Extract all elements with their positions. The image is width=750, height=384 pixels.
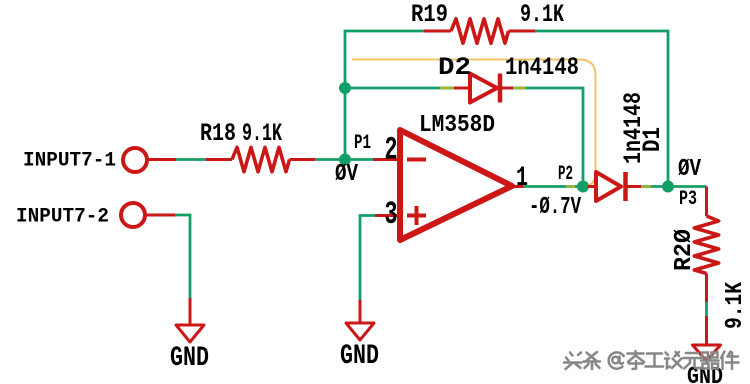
resistor R20 (vertical) xyxy=(694,216,718,274)
svg-text:GND: GND xyxy=(170,343,209,374)
wire orange highlight net xyxy=(352,60,596,187)
工 xyxy=(646,354,664,367)
op-amp plus input mark xyxy=(407,214,426,218)
terminal INPUT7-1 xyxy=(123,148,147,172)
svg-text:INPUT7-2: INPUT7-2 xyxy=(16,206,109,229)
wire INPUT7-2 to GND xyxy=(146,214,175,217)
ground GND left xyxy=(176,325,204,342)
wire P3 to R20 xyxy=(674,185,707,188)
谈 xyxy=(665,352,682,368)
resistor R18 xyxy=(232,147,290,171)
pin mark D2 anode xyxy=(440,87,454,89)
@ xyxy=(609,352,624,368)
diode D1 xyxy=(588,172,641,201)
svg-text:D1: D1 xyxy=(638,127,667,152)
wire op-amp output to node P2 xyxy=(512,185,523,188)
svg-text:P3: P3 xyxy=(679,188,697,211)
svg-text:3: 3 xyxy=(385,196,398,233)
svg-text:-Ø.7V: -Ø.7V xyxy=(529,194,581,221)
件 xyxy=(721,352,739,370)
svg-text:LM358D: LM358D xyxy=(419,112,495,139)
op-amp U1 LM358D xyxy=(400,130,512,240)
svg-text:2: 2 xyxy=(385,132,398,169)
wire D2 cathode to node P2 xyxy=(513,88,583,187)
svg-text:R2Ø: R2Ø xyxy=(671,229,698,271)
wire R20 to GND xyxy=(302,273,707,275)
wire R18 right xyxy=(290,158,316,161)
svg-text:1n4148: 1n4148 xyxy=(505,53,579,82)
ground GND middle xyxy=(346,323,374,340)
wire D1 cathode to node P3 xyxy=(641,185,662,188)
wire P1 to op-amp pin 2 xyxy=(351,158,373,161)
pin mark D1 cathode xyxy=(641,186,651,188)
wire R19 left red lead xyxy=(424,30,451,33)
wire D2 anode branch xyxy=(345,87,454,90)
wire input row INPUT7-1 xyxy=(147,158,176,161)
node P1 junction dot xyxy=(339,154,351,166)
器 xyxy=(701,353,719,369)
node P3 junction dot xyxy=(662,181,674,193)
条 xyxy=(584,352,601,369)
svg-text:P1: P1 xyxy=(354,132,371,155)
pin mark op-amp output xyxy=(566,186,575,188)
resistor R19 xyxy=(451,19,509,43)
node P2 junction dot xyxy=(577,181,589,193)
svg-text:9.1K: 9.1K xyxy=(242,119,282,148)
wire R19 to right rail and down to node P3 xyxy=(535,31,668,181)
svg-text:R19: R19 xyxy=(411,0,448,29)
svg-text:ØV: ØV xyxy=(678,156,701,183)
svg-text:P2: P2 xyxy=(558,163,573,186)
svg-text:9.1K: 9.1K xyxy=(722,282,749,329)
李 xyxy=(628,351,645,369)
watermark 头条 @李工谈元器件 xyxy=(564,351,739,369)
wire feedback top from node A to right vertical xyxy=(345,31,424,160)
ground GND right xyxy=(693,345,721,361)
svg-text:1: 1 xyxy=(516,163,528,194)
wire op-amp pin 3 to GND xyxy=(375,214,400,217)
svg-text:ØV: ØV xyxy=(335,161,358,188)
node A junction dot xyxy=(339,82,351,94)
diode D2 xyxy=(454,74,513,103)
svg-text:R18: R18 xyxy=(200,119,236,148)
svg-text:GND: GND xyxy=(340,341,379,372)
头 xyxy=(564,353,582,370)
svg-text:9.1K: 9.1K xyxy=(520,0,564,29)
svg-text:D2: D2 xyxy=(438,53,471,82)
svg-text:INPUT7-1: INPUT7-1 xyxy=(23,150,116,173)
wire R19 right red lead xyxy=(509,30,536,33)
pin mark D2 cathode xyxy=(513,87,526,89)
op-amp minus input mark xyxy=(407,158,426,162)
terminal INPUT7-2 xyxy=(121,203,145,227)
元 xyxy=(684,353,701,369)
